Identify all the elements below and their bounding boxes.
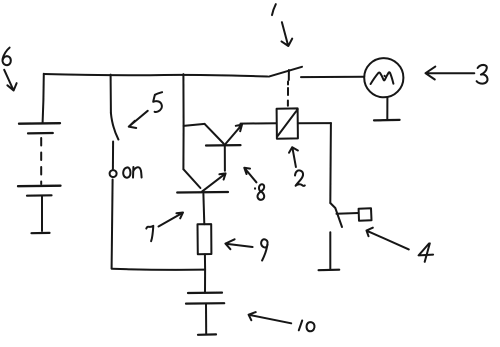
- label 3: [477, 65, 488, 84]
- wire battery negative lead: [41, 197, 43, 232]
- wire Q1 to relay: [241, 122, 277, 124]
- battery bottom terminal bar: [32, 232, 50, 235]
- wire top rail right segment: [301, 76, 364, 78]
- wire bottom rail: [112, 269, 205, 270]
- arrow for 1: [282, 22, 293, 46]
- arrow for 10: [249, 312, 292, 323]
- relay corner dot: [296, 108, 299, 111]
- switch S1 contact tick: [288, 70, 290, 80]
- arrow for 7: [159, 213, 184, 227]
- arrow for 3: [426, 67, 475, 80]
- arrow for 4: [367, 228, 409, 250]
- arrow for 2: [289, 147, 298, 167]
- label 2: [295, 170, 305, 185]
- battery plate short: [28, 132, 53, 135]
- wire Q1 base down to Q2: [224, 146, 226, 171]
- label on text: [123, 167, 130, 177]
- wire S4 ground lead: [329, 232, 331, 268]
- label 1: [272, 4, 276, 15]
- switch S5 contact circle: [110, 170, 117, 177]
- wire S4 to contact square: [337, 212, 359, 215]
- switch S4 blade: [330, 203, 342, 227]
- battery plate long lower: [18, 185, 61, 188]
- label 5: [153, 92, 162, 112]
- transistor Q2 emitter arrow: [202, 173, 226, 191]
- motor M letter: [371, 72, 394, 84]
- switch S4 contact square: [359, 208, 372, 220]
- motor M dot: [384, 75, 386, 77]
- arrow for 5: [129, 111, 148, 128]
- wire battery positive lead: [43, 74, 44, 123]
- battery plate short lower: [27, 194, 52, 197]
- wire middle branch vertical from rail: [182, 74, 184, 126]
- wire rail junction down to capacitor: [204, 269, 206, 292]
- wire resistor bottom to rail: [204, 254, 206, 269]
- motor M1 (item 3) circle: [364, 58, 403, 97]
- arrow for 9: [225, 239, 252, 249]
- switch S1 blade: [269, 67, 302, 77]
- wire switch 4 vertical: [329, 123, 332, 203]
- label 8 stray dot: [254, 187, 256, 189]
- dashed link S1 to relay: [287, 82, 289, 106]
- label 9: [261, 239, 267, 260]
- switch S5 lower lead: [112, 142, 114, 169]
- wire relay to switch 4 branch: [298, 122, 331, 124]
- transistor Q2 base bar (item 7): [177, 191, 228, 194]
- wire Q1 collector diagonal: [205, 124, 224, 144]
- transistor Q1 emitter arrow: [225, 125, 242, 145]
- wire capacitor lower lead: [205, 304, 207, 334]
- capacitor bottom bar: [198, 333, 216, 336]
- wire to Q1 collector horizontal: [184, 124, 205, 126]
- resistor R (item 9) body: [198, 224, 212, 254]
- arrow for 6: [4, 70, 16, 91]
- switch S5 blade: [111, 113, 119, 140]
- transistor Q1 base bar (item 8): [206, 144, 241, 147]
- ground bar under S4: [319, 269, 340, 272]
- capacitor C (item 10) top plate: [188, 292, 222, 295]
- relay diagonal: [278, 111, 297, 136]
- wire left rail lower part: [182, 126, 184, 169]
- capacitor bottom plate: [186, 302, 224, 305]
- label 4: [419, 243, 434, 261]
- relay K1 (item 2) box: [277, 108, 298, 138]
- wire motor lower lead: [386, 97, 388, 119]
- switch S5 upper lead: [110, 75, 112, 113]
- label 6: [3, 48, 11, 66]
- label 8: [258, 184, 265, 200]
- arrow for 8: [244, 168, 256, 183]
- wire top rail left segment: [44, 74, 268, 77]
- label 10: [299, 321, 315, 332]
- label 7: [146, 226, 153, 241]
- wire Q2 down to resistor: [202, 194, 205, 224]
- wire S5 branch down to bottom rail: [112, 180, 113, 269]
- ground bar under motor: [374, 119, 400, 122]
- wire Q2 collector diagonal: [183, 169, 200, 188]
- battery dashed middle: [40, 138, 42, 184]
- battery B1 (item 6) plate long top: [19, 122, 60, 125]
